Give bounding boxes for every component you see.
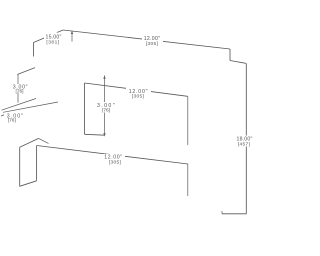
- wire: bottom-right horizontal: [222, 213, 247, 215]
- node: middle needle arrowhead top: [103, 76, 105, 79]
- wire: lower-left box bottom depth edge: [20, 181, 37, 187]
- svg-text:[305]: [305]: [109, 159, 121, 165]
- wire: left-mid depth edge: [17, 68, 35, 75]
- wire: middle needle vertical: [104, 76, 106, 136]
- wire: top-left vertical leg: [33, 43, 35, 57]
- svg-text:[76]: [76]: [8, 117, 16, 123]
- wire: left extension line A: [2, 99, 37, 111]
- svg-text:[305]: [305]: [146, 41, 158, 47]
- wire: right jog horizontal: [230, 61, 246, 64]
- wire: lower-left box right vertical: [36, 146, 38, 181]
- wire: left extension line B: [3, 102, 58, 112]
- node: label backgrounds: [4, 33, 254, 165]
- node: middle needle arrowhead bottom: [103, 133, 105, 136]
- wire: top-left depth edge: [34, 30, 64, 43]
- wire: left-mid dimension vertical: [17, 75, 19, 103]
- wire: lower-left box top depth edge: [20, 138, 39, 147]
- wire: lower-left peak descent: [39, 138, 49, 143]
- wire: left-low leader arrow: [1, 114, 7, 116]
- svg-text:15.00": 15.00": [45, 34, 61, 40]
- wire: lower rail: [37, 146, 188, 165]
- wire: top rail needle tick: [71, 31, 73, 42]
- svg-text:[76]: [76]: [15, 88, 23, 94]
- svg-text:[76]: [76]: [102, 108, 110, 114]
- wire: middle box left vertical: [84, 83, 86, 134]
- wire: middle box bottom edge: [85, 133, 105, 136]
- wire: bottom-right end tick: [221, 211, 223, 214]
- wire: mid-right drop vertical upper: [187, 96, 189, 145]
- wire: middle rail: [85, 83, 188, 96]
- svg-text:12.00": 12.00": [144, 36, 161, 42]
- svg-text:[381]: [381]: [46, 40, 59, 46]
- node: needle arrowhead top rail: [71, 31, 73, 34]
- wire: lower-left box left vertical: [19, 147, 21, 186]
- wire: right jog vertical: [229, 49, 231, 61]
- svg-text:[305]: [305]: [132, 94, 144, 100]
- wire: mid-right drop vertical lower: [187, 164, 189, 196]
- wire: right tall vertical: [245, 63, 247, 214]
- wire: top rail: [63, 30, 230, 49]
- svg-text:[457]: [457]: [238, 142, 250, 148]
